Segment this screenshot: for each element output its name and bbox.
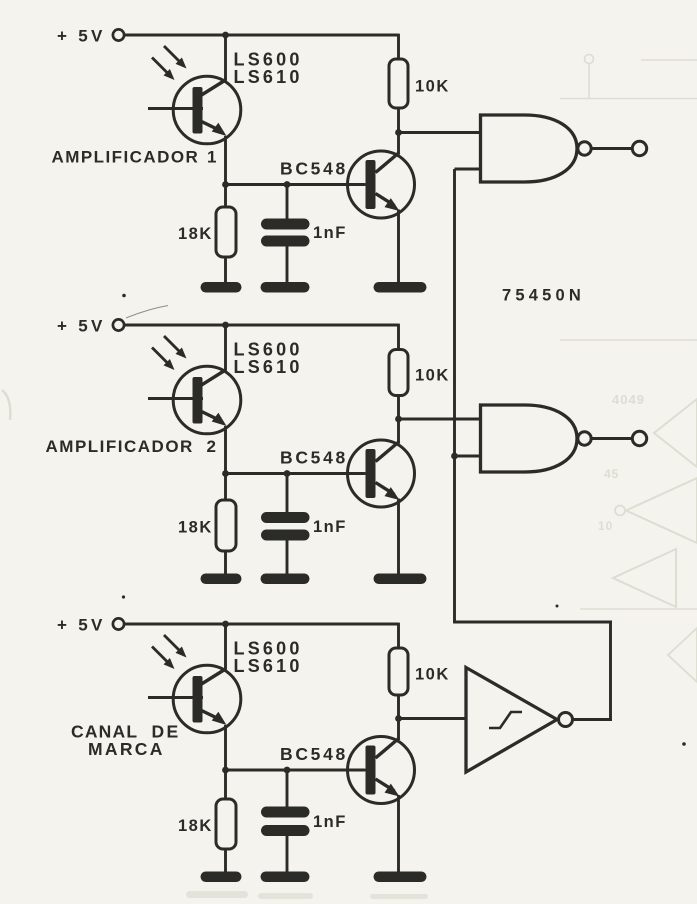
wire Schmitt output bbox=[573, 718, 613, 721]
faint scan bleed right side bbox=[560, 340, 697, 682]
block label bbox=[52, 148, 217, 167]
output terminal bbox=[632, 431, 646, 445]
svg-text:LS610: LS610 bbox=[234, 357, 303, 377]
wire collector to rail bbox=[224, 35, 227, 80]
label LS600 LS610 bbox=[234, 340, 303, 378]
+5V label (block 2) bbox=[57, 317, 106, 336]
svg-text:1nF: 1nF bbox=[313, 224, 347, 242]
svg-text:+ 5V: + 5V bbox=[57, 317, 106, 336]
ground bbox=[374, 872, 427, 883]
wire collector to rail bbox=[224, 325, 227, 370]
wire +5V rail bbox=[125, 324, 399, 327]
junction bbox=[222, 181, 229, 188]
capacitor 1nF (block 2) bbox=[261, 474, 310, 577]
speck bbox=[122, 294, 126, 298]
+5V terminal (block 2) bbox=[113, 319, 124, 330]
svg-text:+ 5V: + 5V bbox=[57, 27, 106, 46]
wire base node bbox=[226, 183, 365, 186]
label 1nF bbox=[313, 224, 347, 242]
NAND gate U1b 75450N bbox=[481, 405, 592, 472]
junction bbox=[222, 621, 229, 628]
svg-text:BC548: BC548 bbox=[280, 448, 348, 468]
junction bbox=[395, 416, 402, 423]
capacitor 1nF (block 3) bbox=[261, 770, 310, 875]
label LS600 LS610 bbox=[234, 50, 303, 88]
label 1nF bbox=[313, 813, 347, 831]
svg-text:MARCA: MARCA bbox=[88, 739, 165, 759]
wire emitter to ground bbox=[397, 210, 400, 286]
wire 10K junction to NAND A input bbox=[399, 418, 481, 421]
label 75450N bbox=[502, 287, 585, 305]
svg-text:10K: 10K bbox=[415, 666, 450, 684]
speck bbox=[682, 742, 686, 746]
label 18K bbox=[178, 817, 213, 835]
block label bbox=[71, 722, 180, 760]
svg-text:AMPLIFICADOR: AMPLIFICADOR bbox=[52, 148, 200, 167]
wire NAND2 output bbox=[592, 437, 633, 440]
wire NAND2 B input bbox=[455, 455, 482, 458]
transistor BC548 (block 3) bbox=[287, 737, 415, 804]
ground bbox=[201, 574, 242, 585]
+5V terminal (block 1) bbox=[113, 29, 124, 40]
svg-text:10K: 10K bbox=[415, 78, 450, 96]
phototransistor LS600/LS610 (block 1) bbox=[148, 76, 241, 144]
junction bbox=[284, 181, 291, 188]
faint mark left edge bbox=[2, 390, 10, 420]
resistor 10K (block 3) bbox=[389, 623, 408, 740]
output terminal bbox=[632, 141, 646, 155]
label 1nF bbox=[313, 518, 347, 536]
svg-text:45: 45 bbox=[604, 467, 619, 481]
svg-text:2: 2 bbox=[207, 437, 216, 456]
junction bbox=[284, 767, 291, 774]
svg-text:1nF: 1nF bbox=[313, 518, 347, 536]
faint scan bleed top right bbox=[560, 55, 697, 99]
wire +5V rail bbox=[125, 34, 399, 37]
junction bbox=[222, 322, 229, 329]
wire feedback horizontal bbox=[453, 621, 612, 624]
resistor 18K (block 1) bbox=[216, 185, 236, 286]
ground bbox=[374, 574, 427, 585]
block label bbox=[46, 437, 216, 456]
wire base node bbox=[226, 472, 365, 475]
wire 10K junction to Schmitt input bbox=[399, 717, 467, 720]
wire feedback vertical right bbox=[609, 621, 612, 720]
wire photo emitter to node bbox=[224, 725, 227, 770]
faint scan bleed bottom bbox=[186, 891, 428, 899]
junction bbox=[222, 767, 229, 774]
Schmitt trigger inverter U2 bbox=[466, 668, 573, 773]
wire photo emitter to node bbox=[224, 136, 227, 185]
ground bbox=[261, 574, 310, 585]
label 10K bbox=[415, 78, 450, 96]
ground bbox=[374, 282, 427, 293]
NAND gate U1a 75450N bbox=[481, 115, 592, 182]
wire input bus vertical bbox=[453, 169, 456, 623]
svg-text:10: 10 bbox=[598, 519, 613, 533]
junction bbox=[284, 470, 291, 477]
wire photo emitter to node bbox=[224, 426, 227, 474]
junction bbox=[395, 715, 402, 722]
transistor BC548 (block 2) bbox=[287, 440, 415, 507]
+5V terminal (block 3) bbox=[113, 618, 124, 629]
+5V label (block 1) bbox=[57, 27, 106, 46]
svg-text:18K: 18K bbox=[178, 225, 213, 243]
svg-text:1: 1 bbox=[207, 148, 216, 167]
ground bbox=[201, 872, 242, 883]
svg-text:18K: 18K bbox=[178, 817, 213, 835]
svg-text:LS610: LS610 bbox=[234, 656, 303, 676]
wire collector to rail bbox=[224, 624, 227, 669]
resistor 18K (block 2) bbox=[216, 474, 236, 577]
light arrows bbox=[152, 336, 187, 370]
svg-text:4049: 4049 bbox=[612, 392, 645, 407]
label 10K bbox=[415, 666, 450, 684]
phototransistor LS600/LS610 (block 3) bbox=[148, 665, 241, 733]
label BC548 bbox=[280, 744, 348, 764]
svg-text:10K: 10K bbox=[415, 367, 450, 385]
label LS600 LS610 bbox=[234, 639, 303, 677]
resistor 18K (block 3) bbox=[216, 770, 236, 875]
svg-text:AMPLIFICADOR: AMPLIFICADOR bbox=[46, 437, 194, 456]
svg-text:BC548: BC548 bbox=[280, 159, 348, 179]
svg-text:BC548: BC548 bbox=[280, 744, 348, 764]
ground bbox=[261, 282, 310, 293]
wire +5V rail bbox=[125, 623, 399, 626]
+5V label (block 3) bbox=[57, 616, 106, 635]
wire emitter to ground bbox=[397, 795, 400, 875]
phototransistor LS600/LS610 (block 2) bbox=[148, 366, 241, 434]
wire base node bbox=[226, 769, 365, 772]
capacitor 1nF (block 1) bbox=[261, 185, 310, 286]
speck bbox=[556, 605, 559, 608]
wire NAND1 output bbox=[592, 147, 633, 150]
wire NAND1 B input bbox=[455, 168, 482, 171]
svg-text:LS610: LS610 bbox=[234, 67, 303, 87]
light arrows bbox=[152, 46, 187, 80]
label BC548 bbox=[280, 159, 348, 179]
wire 10K junction to NAND A input bbox=[399, 131, 481, 134]
resistor 10K (block 1) bbox=[389, 34, 408, 155]
svg-text:18K: 18K bbox=[178, 519, 213, 537]
transistor BC548 (block 1) bbox=[287, 151, 415, 218]
label BC548 bbox=[280, 448, 348, 468]
svg-text:1nF: 1nF bbox=[313, 813, 347, 831]
ground bbox=[261, 872, 310, 883]
speck bbox=[122, 595, 125, 598]
resistor 10K (block 2) bbox=[389, 324, 408, 444]
light arrows bbox=[152, 635, 187, 669]
svg-text:+ 5V: + 5V bbox=[57, 616, 106, 635]
label 18K bbox=[178, 519, 213, 537]
ground bbox=[201, 282, 242, 293]
wire emitter to ground bbox=[397, 499, 400, 577]
junction bbox=[451, 453, 458, 460]
label 10K bbox=[415, 367, 450, 385]
junction bbox=[222, 32, 229, 39]
junction bbox=[222, 470, 229, 477]
label 18K bbox=[178, 225, 213, 243]
hairline scratch bbox=[126, 306, 168, 319]
svg-text:75450N: 75450N bbox=[502, 287, 585, 305]
junction bbox=[395, 129, 402, 136]
